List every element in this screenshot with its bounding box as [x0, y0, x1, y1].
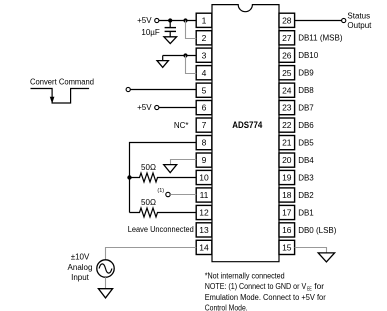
svg-text:24: 24	[282, 85, 292, 95]
pin 10 box	[196, 170, 212, 184]
pin 28 box	[279, 13, 295, 27]
pin 21 box	[279, 136, 295, 150]
svg-text:DB10: DB10	[298, 51, 319, 60]
svg-text:2: 2	[202, 33, 207, 43]
node label DB10 (pin 26)	[298, 51, 319, 60]
svg-text:DB4: DB4	[298, 156, 314, 165]
junction dot pin3/pin4 branch	[183, 53, 187, 57]
wire pin 28 to status output	[295, 20, 342, 22]
node label Status Output	[347, 11, 372, 30]
pin 13 box	[196, 223, 212, 237]
svg-text:1: 1	[202, 15, 207, 25]
pin 12 box	[196, 205, 212, 219]
U1 label ADS774	[232, 120, 262, 130]
ground at pin 15	[318, 253, 334, 262]
svg-text:DB6: DB6	[298, 121, 314, 130]
svg-text:NOTE: (1) Connect to GND or V: NOTE: (1) Connect to GND or V	[205, 282, 307, 291]
source V1 +-10V analog input	[97, 260, 114, 277]
terminal circle status output	[342, 18, 346, 22]
svg-text:18: 18	[282, 190, 292, 200]
svg-text:14: 14	[199, 243, 209, 253]
svg-text:NC*: NC*	[174, 121, 189, 130]
svg-text:7: 7	[202, 120, 207, 130]
junction dot at resistor R1	[127, 175, 131, 179]
pin 19 box	[279, 170, 295, 184]
ground below capacitor C1	[164, 37, 177, 44]
resistor R1 50ohm value label	[141, 163, 156, 172]
svg-text:50Ω: 50Ω	[141, 163, 156, 172]
node label DB11 (MSB) (pin 27)	[298, 34, 343, 43]
node label DB4 (pin 20)	[298, 156, 314, 165]
node label NC* (pin 7)	[174, 121, 189, 130]
svg-text:ADS774: ADS774	[232, 120, 262, 130]
wire pin 14 to analog source	[106, 248, 197, 260]
terminal circle +5V (pin 1)	[155, 18, 159, 22]
pin 9 box	[196, 153, 212, 167]
svg-text:for: for	[314, 282, 324, 291]
wire source to ground	[105, 277, 107, 288]
wire +5V to pin 6	[159, 107, 196, 109]
svg-text:Emulation Mode. Connect to +5V: Emulation Mode. Connect to +5V for	[205, 293, 326, 302]
node label DB5 (pin 21)	[298, 139, 314, 148]
svg-text:Input: Input	[71, 273, 90, 282]
svg-text:19: 19	[282, 173, 292, 183]
pin 27 box	[279, 31, 295, 45]
svg-text:10µF: 10µF	[141, 28, 160, 37]
svg-text:5: 5	[202, 85, 207, 95]
resistor R1 50 ohm (pin 10)	[130, 173, 197, 182]
svg-text:9: 9	[202, 155, 207, 165]
note text block	[205, 271, 326, 311]
resistor R2 50 ohm (pin 12)	[130, 208, 197, 217]
svg-text:6: 6	[202, 103, 207, 113]
svg-text:DB1: DB1	[298, 208, 314, 217]
svg-text:DB2: DB2	[298, 191, 314, 200]
svg-text:Convert Command: Convert Command	[30, 77, 94, 86]
svg-text:26: 26	[282, 50, 292, 60]
svg-text:22: 22	[282, 120, 292, 130]
svg-text:Output: Output	[347, 21, 372, 30]
terminal circle pin 11	[166, 192, 170, 196]
label +-10V Analog Input	[68, 253, 93, 283]
pin 1 box	[196, 13, 212, 27]
wire +5V to pin 1	[159, 20, 196, 22]
capacitor C1 10uF	[165, 21, 176, 37]
pin 24 box	[279, 83, 295, 97]
pin 6 box	[196, 101, 212, 115]
svg-text:28: 28	[282, 15, 292, 25]
pin 5 box	[196, 83, 212, 97]
svg-text:DB3: DB3	[298, 173, 314, 182]
node label DB6 (pin 22)	[298, 121, 314, 130]
node +5V supply label (pin 6)	[137, 103, 152, 112]
pin 14 box	[196, 240, 212, 254]
ground at pin 9	[164, 165, 177, 173]
wire branch to pin 4	[186, 56, 197, 74]
node label DB8 (pin 24)	[298, 86, 314, 95]
node label DB9 (pin 25)	[298, 69, 314, 78]
svg-text:11: 11	[200, 190, 209, 200]
node label DB3 (pin 19)	[298, 173, 314, 182]
svg-text:12: 12	[199, 208, 209, 218]
node label DB2 (pin 18)	[298, 191, 314, 200]
svg-text:25: 25	[282, 68, 292, 78]
junction dot pin2 branch	[183, 18, 187, 22]
ground below source V1	[98, 289, 112, 298]
junction dot at capacitor C1 top	[168, 18, 172, 22]
svg-text:21: 21	[282, 138, 292, 148]
svg-text:4: 4	[202, 68, 207, 78]
pin 16 box	[279, 223, 295, 237]
pin 18 box	[279, 188, 295, 202]
node label DB1 (pin 17)	[298, 208, 314, 217]
ground at pin 3	[157, 61, 168, 68]
node +5V supply label (pin 1)	[137, 16, 152, 25]
value label 10uF	[141, 28, 160, 37]
wire convert command to pin 5	[130, 89, 196, 91]
svg-text:DB9: DB9	[298, 69, 314, 78]
svg-text:20: 20	[282, 155, 292, 165]
wire pin 11	[170, 194, 196, 196]
pin 23 box	[279, 101, 295, 115]
pin 2 box	[196, 31, 212, 45]
svg-text:17: 17	[282, 208, 292, 218]
svg-text:+5V: +5V	[137, 103, 152, 112]
pin 15 box	[279, 240, 295, 254]
svg-text:DB11 (MSB): DB11 (MSB)	[298, 34, 343, 43]
svg-text:50Ω: 50Ω	[141, 198, 156, 207]
svg-text:23: 23	[282, 103, 292, 113]
pin 26 box	[279, 48, 295, 62]
svg-text:8: 8	[202, 138, 207, 148]
terminal circle +5V (pin 6)	[155, 105, 159, 109]
node label Convert Command	[30, 77, 94, 86]
svg-text:Control Mode.: Control Mode.	[205, 304, 248, 311]
node label Leave Unconnected (pin 13)	[128, 225, 194, 234]
wire pin 8 to bus corner	[130, 143, 197, 178]
note (1) superscript at pin 11	[157, 188, 164, 194]
svg-text:DB0 (LSB): DB0 (LSB)	[298, 226, 337, 235]
pin 20 box	[279, 153, 295, 167]
svg-text:Leave Unconnected: Leave Unconnected	[128, 225, 194, 234]
svg-text:27: 27	[282, 33, 292, 43]
resistor R2 50ohm value label	[141, 198, 156, 207]
wire pin 15 to ground	[295, 248, 327, 253]
svg-text:Analog: Analog	[68, 263, 93, 272]
svg-text:15: 15	[282, 243, 292, 253]
node label DB0 (LSB) (pin 16)	[298, 226, 337, 235]
wire pin 9 to ground	[171, 160, 197, 165]
svg-text:DB8: DB8	[298, 86, 314, 95]
node label DB7 (pin 23)	[298, 104, 314, 113]
svg-text:(1): (1)	[157, 188, 164, 194]
pin 7 box	[196, 118, 212, 132]
wire branch to pin 2	[186, 21, 197, 39]
svg-text:16: 16	[282, 225, 292, 235]
terminal circle pin 5	[126, 87, 130, 91]
svg-text:+5V: +5V	[137, 16, 152, 25]
svg-text:DB5: DB5	[298, 139, 314, 148]
pin 3 box	[196, 48, 212, 62]
pin 25 box	[279, 66, 295, 80]
svg-text:10: 10	[199, 173, 209, 183]
svg-text:3: 3	[202, 50, 207, 60]
svg-text:13: 13	[199, 225, 209, 235]
svg-text:DB7: DB7	[298, 104, 314, 113]
wire bus down to pin 12 row	[129, 178, 131, 213]
pin 11 box	[196, 188, 212, 202]
pin 22 box	[279, 118, 295, 132]
convert command waveform	[31, 89, 90, 104]
pin 4 box	[196, 66, 212, 80]
svg-text:EE: EE	[307, 287, 312, 293]
svg-text:Status: Status	[347, 11, 370, 20]
pin 8 box	[196, 136, 212, 150]
pin 17 box	[279, 205, 295, 219]
wire ground to pin 3	[163, 56, 197, 61]
IC U1 ADS774 body	[212, 5, 279, 262]
svg-text:*Not internally connected: *Not internally connected	[205, 271, 285, 280]
svg-text:±10V: ±10V	[71, 253, 90, 262]
